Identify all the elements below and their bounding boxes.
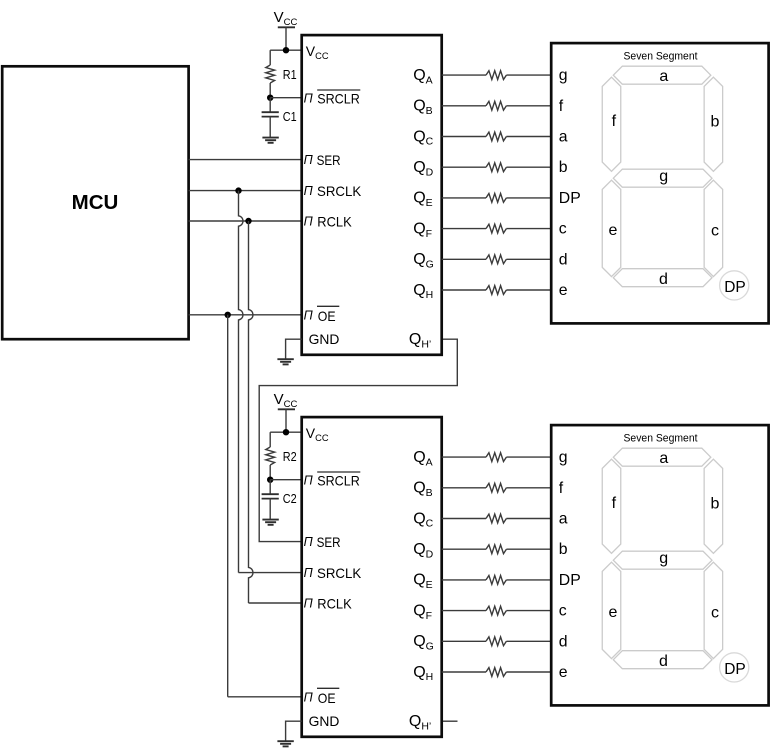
svg-text:d: d (559, 251, 568, 268)
svg-text:R2: R2 (283, 449, 297, 464)
segment f (DS1) (602, 77, 621, 171)
junction dot R2/C2/SRCLR (267, 477, 273, 483)
ground (U1 GND) (277, 359, 293, 364)
junction dot SRCLK branch (235, 187, 241, 193)
wire QH to resistor (1) (442, 289, 486, 291)
svg-text:GND: GND (309, 331, 340, 347)
wire Vcc pin net (1) (270, 49, 302, 51)
resistor (QD series, 1) (486, 163, 506, 172)
pin label SRCLK (U1) (304, 183, 362, 199)
svg-text:OE: OE (318, 308, 336, 324)
wire U2 QH' stub (442, 720, 458, 722)
resistor (QH series, 1) (486, 286, 506, 295)
resistor (QF series, 1) (486, 224, 506, 233)
wire SRCLK branch horizontal into U2 (239, 572, 302, 574)
segment a (DS1) (613, 66, 711, 84)
svg-text:DP: DP (559, 190, 581, 207)
wire resistor to display pin c (1) (506, 228, 551, 230)
svg-text:f: f (559, 98, 564, 115)
segment a (DS2) (613, 448, 711, 466)
svg-text:e: e (609, 604, 618, 621)
svg-text:SER: SER (317, 152, 341, 168)
wire QE to resistor (2) (442, 579, 486, 581)
svg-text:RCLK: RCLK (317, 596, 352, 612)
svg-text:g: g (559, 67, 568, 84)
svg-text:e: e (609, 222, 618, 239)
svg-text:b: b (559, 159, 568, 176)
pin label SER (U1) (304, 152, 341, 168)
wire QF to resistor (1) (442, 228, 486, 230)
wire QG to resistor (2) (442, 640, 486, 642)
shift register U2 (302, 417, 442, 737)
MCU block (2, 66, 188, 339)
svg-text:Π: Π (304, 153, 314, 167)
svg-text:SRCLK: SRCLK (317, 565, 362, 581)
wire GND pin (U2) (286, 721, 302, 741)
svg-text:Seven Segment: Seven Segment (624, 433, 698, 445)
svg-text:SRCLR: SRCLR (317, 91, 360, 107)
resistor (QC series, 2) (486, 514, 506, 523)
wire resistor to display pin c (2) (506, 610, 551, 612)
pin label OE with overline (U1) (304, 306, 340, 324)
resistor R1 (266, 50, 297, 97)
svg-text:SER: SER (317, 534, 341, 550)
svg-text:f: f (612, 495, 617, 512)
junction dot OE branch (225, 312, 231, 318)
svg-text:Π: Π (304, 308, 314, 322)
pin label SER (U2) (304, 534, 341, 550)
capacitor C1 (262, 98, 297, 138)
segment d (DS1) (613, 269, 712, 287)
svg-text:DP: DP (724, 661, 746, 678)
svg-text:f: f (612, 113, 617, 130)
segment b (DS2) (704, 459, 723, 553)
svg-text:g: g (659, 168, 668, 185)
wire Vcc pin net (2) (270, 431, 302, 433)
wire QD to resistor (1) (442, 166, 486, 168)
wire resistor to display pin a (2) (506, 518, 551, 520)
wire resistor to display pin d (2) (506, 640, 551, 642)
pin label SRCLK (U2) (304, 565, 362, 581)
svg-text:DP: DP (724, 279, 746, 296)
resistor (QA series, 2) (486, 453, 506, 462)
pin label RCLK (U2) (304, 596, 353, 612)
svg-text:C2: C2 (283, 491, 297, 506)
svg-text:c: c (559, 221, 567, 238)
segment d (DS2) (613, 651, 712, 669)
resistor (QC series, 1) (486, 132, 506, 141)
svg-text:d: d (659, 271, 668, 288)
resistor R2 (266, 432, 297, 480)
svg-text:b: b (711, 113, 720, 130)
wire OE branch horizontal into U2 (228, 696, 302, 698)
wire QG to resistor (1) (442, 258, 486, 260)
svg-text:OE: OE (318, 690, 336, 706)
svg-text:a: a (559, 129, 568, 146)
resistor (QE series, 1) (486, 194, 506, 203)
svg-text:b: b (559, 541, 568, 558)
resistor (QF series, 2) (486, 606, 506, 615)
wire resistor to display pin P (1) (506, 197, 551, 199)
segment f (DS2) (602, 459, 621, 553)
svg-text:Π: Π (304, 91, 314, 105)
resistor (QB series, 1) (486, 101, 506, 110)
svg-text:Π: Π (304, 566, 314, 580)
svg-text:C1: C1 (283, 109, 297, 124)
segment g (DS1) (613, 169, 712, 187)
svg-text:d: d (559, 633, 568, 650)
pin label SRCLR with overline (U1) (304, 90, 361, 107)
wire QE to resistor (1) (442, 197, 486, 199)
svg-text:g: g (559, 449, 568, 466)
svg-text:c: c (711, 605, 719, 622)
wire SRCLR net (2) (270, 479, 302, 481)
resistor (QD series, 2) (486, 545, 506, 554)
resistor (QG series, 1) (486, 255, 506, 264)
wire resistor to display pin f (2) (506, 487, 551, 489)
wire MCU SRCLK to U1 (189, 190, 302, 192)
wire QD to resistor (2) (442, 548, 486, 550)
wire resistor to display pin d (1) (506, 258, 551, 260)
svg-text:Π: Π (304, 215, 314, 229)
svg-text:DP: DP (559, 572, 581, 589)
wire resistor to display pin b (2) (506, 548, 551, 550)
wire SRCLR net (1) (270, 97, 302, 99)
svg-text:f: f (559, 480, 564, 497)
wire MCU OE to U1 (189, 314, 302, 316)
wire RCLK branch horizontal into U2 (249, 602, 302, 604)
wire resistor to display pin f (1) (506, 105, 551, 107)
resistor (QH series, 2) (486, 668, 506, 677)
svg-text:Π: Π (304, 597, 314, 611)
svg-text:MCU: MCU (72, 191, 119, 214)
pin label SRCLR with overline (U2) (304, 472, 361, 489)
svg-text:b: b (711, 495, 720, 512)
wire SRCLK branch to U2 (hops RCLK and OE) (239, 191, 244, 573)
capacitor C2 (262, 480, 297, 520)
Vcc power symbol (1) (274, 9, 298, 50)
wire resistor to display pin e (1) (506, 289, 551, 291)
svg-text:RCLK: RCLK (317, 214, 352, 230)
svg-text:GND: GND (309, 713, 340, 729)
wire resistor to display pin e (2) (506, 671, 551, 673)
wire RCLK branch to U2 (hops OE and U2 SRCLK) (249, 221, 254, 603)
resistor (QA series, 1) (486, 71, 506, 80)
wire resistor to display pin g (2) (506, 456, 551, 458)
wire OE branch to U2 (227, 315, 229, 697)
junction dot RCLK branch (245, 218, 251, 224)
DP circle (DS2) (720, 653, 749, 682)
wire QH to resistor (2) (442, 671, 486, 673)
Vcc power symbol (2) (274, 391, 298, 432)
segment e (DS1) (602, 180, 621, 276)
wire resistor to display pin P (2) (506, 579, 551, 581)
svg-text:Π: Π (304, 473, 314, 487)
wire resistor to display pin g (1) (506, 74, 551, 76)
segment g (DS2) (613, 551, 712, 569)
junction dot Vcc/R2 (283, 429, 289, 435)
segment c (DS1) (704, 180, 723, 276)
wire U1 QH' to U2 SER (259, 339, 457, 541)
seven segment display DS1 (551, 43, 768, 323)
segment b (DS1) (704, 77, 723, 171)
wire resistor to display pin b (1) (506, 166, 551, 168)
resistor (QB series, 2) (486, 483, 506, 492)
svg-text:Π: Π (304, 535, 314, 549)
segment e (DS2) (602, 562, 621, 658)
shift register U1 (302, 35, 442, 355)
svg-text:Seven Segment: Seven Segment (624, 51, 698, 63)
ground (C2) (262, 520, 278, 525)
svg-text:c: c (711, 223, 719, 240)
wire resistor to display pin a (1) (506, 136, 551, 138)
svg-text:SRCLK: SRCLK (317, 183, 362, 199)
svg-text:SRCLR: SRCLR (317, 473, 360, 489)
svg-text:a: a (559, 511, 568, 528)
svg-text:Π: Π (304, 184, 314, 198)
svg-text:a: a (659, 450, 668, 467)
svg-text:e: e (559, 282, 568, 299)
wire MCU SER to U1 (189, 159, 302, 161)
ground (C1) (262, 138, 278, 143)
svg-text:g: g (659, 550, 668, 567)
DP circle (DS1) (720, 271, 749, 300)
svg-text:c: c (559, 603, 567, 620)
wire QA to resistor (2) (442, 456, 486, 458)
svg-text:a: a (659, 68, 668, 85)
wire QA to resistor (1) (442, 74, 486, 76)
junction dot Vcc/R1 (283, 47, 289, 53)
resistor (QG series, 2) (486, 637, 506, 646)
wire MCU RCLK to U1 (189, 220, 302, 222)
wire QC to resistor (2) (442, 518, 486, 520)
pin label RCLK (U1) (304, 214, 353, 230)
svg-text:Π: Π (304, 690, 314, 704)
wire QF to resistor (2) (442, 610, 486, 612)
wire QB to resistor (2) (442, 487, 486, 489)
svg-text:e: e (559, 664, 568, 681)
svg-text:R1: R1 (283, 67, 297, 82)
wire GND pin (U1) (286, 339, 302, 359)
svg-text:d: d (659, 653, 668, 670)
ground (U2 GND) (277, 741, 293, 746)
pin label OE with overline (U2) (304, 688, 340, 706)
junction dot R1/C1/SRCLR (267, 95, 273, 101)
seven segment display DS2 (551, 425, 768, 705)
resistor (QE series, 2) (486, 576, 506, 585)
wire QB to resistor (1) (442, 105, 486, 107)
segment c (DS2) (704, 562, 723, 658)
wire QC to resistor (1) (442, 136, 486, 138)
